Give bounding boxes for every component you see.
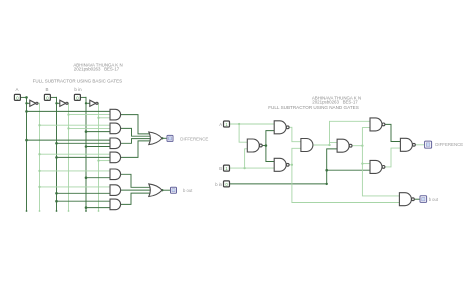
- pin output b-out right: [420, 196, 427, 203]
- svg-text:B: B: [219, 166, 222, 171]
- wire AND6 output to OR2: [121, 189, 153, 191]
- node rail B-bar end: [68, 210, 70, 212]
- wire AND6 input from B: [57, 192, 111, 194]
- wire rail B-bar vertical: [68, 103, 70, 211]
- wire G1 output split: [262, 145, 266, 147]
- wire NOT3 output to rail b-bar: [98, 102, 99, 104]
- wire G4 output to junction: [313, 144, 330, 146]
- pin input A left: [14, 94, 20, 100]
- wire AND3 output to OR1: [121, 139, 153, 144]
- node AND3-A tap: [25, 139, 28, 142]
- wire rail b-in vertical: [85, 97, 87, 211]
- node b-in corner dot: [326, 183, 328, 185]
- node B rise junction: [243, 167, 245, 169]
- node AND4-B tap: [55, 156, 58, 159]
- wire rail A vertical: [26, 97, 28, 211]
- and-gate U6 (A B b): [110, 138, 121, 149]
- or-gate U12 (b out): [149, 184, 162, 197]
- node rail A end: [26, 210, 28, 212]
- node AND4-Abar tap: [38, 153, 40, 155]
- node AND6-Abar tap: [38, 186, 40, 188]
- node AND7-b tap: [85, 206, 88, 209]
- wire AND1 input from B-bar: [69, 114, 111, 116]
- node OR2 output dot: [161, 189, 163, 191]
- node rail B end: [56, 210, 58, 212]
- wire B2 output to junction: [352, 145, 362, 147]
- not-gate U2 (input B): [60, 100, 66, 106]
- wire AND1 output to OR1: [121, 115, 152, 134]
- nand-gate B2 (G4,b): [337, 139, 349, 152]
- wire OR2 output to b-out pin: [162, 189, 171, 191]
- and-gate U7 (A' B b'): [110, 152, 121, 163]
- wire AND5 input from b: [86, 177, 110, 179]
- wire rail A-bar vertical: [39, 103, 41, 211]
- node b-in B4 tap: [325, 169, 328, 172]
- wire B3 output down to B5 input1: [385, 124, 400, 141]
- or-gate U11 (DIFFERENCE): [149, 132, 162, 145]
- svg-text:A: A: [219, 122, 222, 127]
- node AND2-b tap: [85, 130, 88, 133]
- node AND6-B tap: [55, 192, 58, 195]
- wire A drop to G1 input1: [239, 124, 247, 142]
- wire AND7 input from B: [57, 200, 111, 202]
- wire B5 output to DIFFERENCE pin: [415, 144, 424, 146]
- node G1 output junction: [265, 144, 268, 147]
- and-gate U9 (A' B): [110, 185, 121, 196]
- wire B4 output up to B5 input2: [385, 148, 400, 167]
- node A junction: [25, 96, 28, 99]
- svg-text:B: B: [45, 87, 48, 92]
- wire G3 out down to NAND B6 input2: [292, 165, 400, 203]
- wire B2 out to B4 input1: [362, 163, 370, 165]
- wire B to NOT2 input: [57, 102, 60, 104]
- wire G3 output up to G4 input2: [289, 148, 301, 165]
- and-gate U8 (A' b): [110, 169, 121, 180]
- node rail A-bar end: [39, 210, 41, 212]
- wire AND4 input from A-bar: [40, 153, 111, 155]
- nand-gate G2 (A,G1): [274, 121, 286, 134]
- wire B rise to G1 input2: [245, 149, 248, 168]
- node G4 output junction: [328, 144, 330, 146]
- svg-text:2021psb0263 BES-17: 2021psb0263 BES-17: [74, 66, 120, 71]
- and-gate G4 (xor1 combine): [301, 139, 313, 152]
- wire b-in pin to rail: [80, 96, 86, 98]
- nand-gate G1 (A,B): [247, 139, 259, 152]
- node OR1 output dot: [161, 137, 163, 139]
- wire NOT1 output to rail A': [38, 102, 40, 104]
- wire b-in to NOT3 input: [86, 102, 90, 104]
- wire b-in rise to NAND B2 input2: [327, 149, 337, 184]
- node B not-stub junction: [55, 102, 57, 104]
- and-gate U10 (B b): [110, 199, 121, 210]
- node AND7-B tap: [55, 200, 58, 203]
- wire G4 out up to NAND B3 input1: [330, 121, 371, 145]
- wire AND4 input from b-bar: [99, 160, 111, 162]
- svg-text:DIFFERENCE: DIFFERENCE: [180, 137, 208, 142]
- wire B pin to rail: [50, 96, 56, 98]
- wire AND5 input from A-bar: [40, 170, 111, 172]
- wire AND3 input from A: [27, 139, 111, 141]
- pin input b-in right: [224, 181, 230, 187]
- node A not-stub junction: [25, 102, 27, 104]
- wire b-in to NAND B4 input2: [327, 169, 370, 171]
- nand-gate B5 (DIFFERENCE): [400, 138, 412, 151]
- not-gate U3 (input b-in): [90, 100, 96, 106]
- nand-gate B4 (B2,b): [370, 160, 382, 173]
- wire NOT2 output to rail B': [68, 102, 69, 104]
- pin input b-in left: [74, 94, 80, 100]
- wire AND1 input from A: [27, 110, 111, 112]
- pin output b-out left: [171, 187, 177, 193]
- pin input A right: [224, 121, 230, 127]
- wire A pin to rail: [20, 96, 26, 98]
- wire AND1 input from b-bar: [99, 117, 111, 119]
- wire AND2 input from b: [86, 131, 110, 133]
- wire AND2 input from B-bar: [69, 127, 111, 129]
- svg-text:FULL SUBTRACTOR USING NAND GAT: FULL SUBTRACTOR USING NAND GATES: [268, 105, 359, 110]
- and-gate U4 (A B' b'): [110, 109, 121, 120]
- pin input B right: [224, 165, 230, 171]
- nand-gate G3 (G1,B): [274, 158, 286, 171]
- wire AND7 output to OR2: [121, 193, 152, 204]
- wire AND3 input from B: [57, 142, 111, 144]
- node AND2-Bbar tap: [67, 127, 69, 129]
- node B2 output junction: [361, 145, 363, 147]
- svg-text:b out: b out: [429, 197, 439, 202]
- wire B6 output to b-out pin: [414, 198, 420, 200]
- wire AND7 input from b: [86, 207, 110, 209]
- node AND5-Abar tap: [38, 170, 40, 172]
- svg-text:DIFFERENCE: DIFFERENCE: [435, 142, 463, 147]
- node AND1-A tap: [25, 110, 28, 113]
- nand-gate B6 (b out): [399, 193, 411, 206]
- wire AND5 output to OR2: [121, 174, 152, 187]
- node AND1-bbar tap: [97, 117, 99, 119]
- node AND3-b tap: [85, 145, 88, 148]
- and-gate U5 (A' B' b): [110, 123, 121, 134]
- node AND3-B tap: [55, 142, 58, 145]
- wire rail B vertical: [56, 97, 58, 211]
- pin output DIFFERENCE right: [425, 141, 432, 148]
- wire G1 out down to G3 input1: [266, 146, 274, 162]
- node AND2-Abar tap: [38, 124, 40, 126]
- pin input B left: [44, 94, 50, 100]
- node AND4-bbar tap: [97, 159, 99, 161]
- wire G4 out to NAND B2 input1: [330, 142, 338, 144]
- wire B to NAND G3 input2: [230, 167, 275, 169]
- node AND1-Bbar tap: [67, 113, 69, 115]
- node rail b-in-bar end: [98, 210, 100, 212]
- wire AND2 input from A-bar: [40, 124, 111, 126]
- node B2-B4 tap: [361, 162, 363, 164]
- wire B2 out up to B3 input2: [362, 128, 370, 146]
- wire B2 out down to B6 input1: [362, 146, 399, 196]
- wire AND3 input from b: [86, 146, 110, 148]
- wire rail b-in-bar vertical: [98, 103, 100, 211]
- wire G1 out up to G2 input2: [266, 131, 274, 146]
- svg-text:2021psb0263 BES-17: 2021psb0263 BES-17: [312, 99, 358, 104]
- svg-text:b out: b out: [183, 188, 193, 193]
- wire AND2 output to OR1: [121, 128, 153, 136]
- wire G2 output down to G4 input1: [289, 127, 301, 141]
- pin output DIFFERENCE left: [167, 135, 173, 141]
- not-gate U1 (input A): [30, 100, 36, 106]
- wire AND6 input from A-bar: [40, 186, 111, 188]
- svg-text:A: A: [15, 87, 18, 92]
- svg-text:FULL SUBTRACTOR USING BASIC GA: FULL SUBTRACTOR USING BASIC GATES: [33, 78, 122, 83]
- node b-in not-stub junction: [85, 102, 87, 104]
- node G3 output junction: [291, 164, 293, 166]
- node rail b-in end: [85, 210, 87, 212]
- wire AND4 input from B: [57, 156, 111, 158]
- node AND5-b tap: [85, 176, 88, 179]
- wire A to NAND G2 input1: [230, 123, 275, 125]
- svg-text:b in: b in: [74, 87, 82, 92]
- node A drop junction: [238, 123, 240, 125]
- svg-text:b in: b in: [215, 182, 222, 187]
- wire AND4 output to OR1: [121, 141, 152, 158]
- wire b-in horizontal run: [230, 183, 327, 185]
- wire OR1 output to DIFFERENCE pin: [162, 137, 167, 139]
- nand-gate B3 (G4,B2): [370, 118, 382, 131]
- wire A to NOT1 input: [27, 102, 30, 104]
